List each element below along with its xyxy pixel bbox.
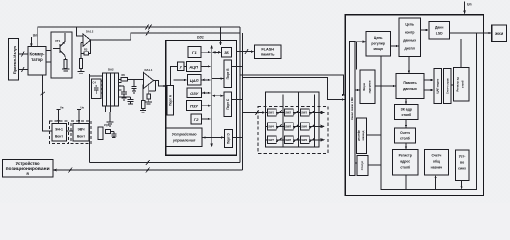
wire delay former to data memory [375, 85, 396, 87]
svg-text:ЭН-1: ЭН-1 [55, 128, 63, 132]
svg-text:Порт В: Порт В [226, 68, 230, 80]
main vertical wire left of driver IC [89, 74, 91, 163]
wire row counter to column address register [451, 84, 453, 86]
svg-text:ПЗУ: ПЗУ [190, 104, 198, 109]
wire U to ADC [184, 65, 187, 67]
wire port B to external bus [232, 66, 243, 68]
vertical bus V2 right of DD1 [242, 33, 244, 170]
svg-text:Канал связи с МК: Канал связи с МК [350, 97, 354, 120]
svg-text:Uп: Uп [467, 3, 472, 7]
block column counter (Счетч столб) [395, 128, 416, 143]
block data memory (Память данных) [396, 74, 424, 99]
bus slash on commutator down wire [41, 92, 46, 95]
svg-text:SW2: SW2 [285, 111, 291, 115]
block column address latch (ЗК адр столб) [395, 105, 418, 120]
svg-text:Г1: Г1 [192, 50, 197, 55]
svg-text:синх: синх [458, 167, 466, 171]
power arrow into fan 2 [77, 106, 84, 124]
IC left pins to C4 [90, 76, 103, 93]
wire DA1.1 output into Port A [154, 81, 167, 88]
wire bus to ZB [212, 51, 221, 53]
svg-text:Статус: Статус [360, 160, 364, 170]
block ADC (АЦП) [186, 61, 201, 71]
wire sync device to bottom bus [460, 180, 462, 189]
svg-text:столб: столб [400, 166, 410, 170]
wire op-amp DA1.2 output to bus Y2 [91, 33, 241, 40]
block column address register (Регистр ад столб) vertical [454, 68, 470, 101]
feedback resistor R3 [81, 40, 91, 55]
svg-text:LSD: LSD [436, 32, 443, 36]
svg-text:Форм: Форм [362, 83, 366, 91]
wire B bottom bus to positioning device [53, 168, 243, 173]
block U amplifier [178, 62, 184, 71]
svg-text:Вент: Вент [77, 135, 85, 139]
op-amp DA1.1 feedback resistor R7 to ground [140, 81, 155, 113]
keyboard row arrows at right edge [319, 111, 324, 113]
wire commutator to transistor box stub2 [46, 61, 51, 63]
block DAC (ЦАП) [188, 75, 201, 86]
svg-text:DA1.1: DA1.1 [145, 68, 153, 72]
wire DAC to bus [201, 79, 211, 81]
transistor VT1 [53, 33, 65, 56]
block column address reg (Регистр адрес столб) [393, 150, 419, 175]
bus pair to display module: wire b1 [240, 75, 344, 95]
svg-text:R3: R3 [84, 48, 88, 52]
switch SW8 [285, 136, 300, 143]
svg-text:Порт А: Порт А [168, 94, 172, 106]
wire commutator top riser to top bus Y1 [38, 27, 240, 47]
svg-text:мощн: мощн [373, 47, 382, 51]
svg-text:SW4: SW4 [268, 125, 274, 129]
svg-text:команд: команд [362, 130, 365, 140]
wire status to internal bus [368, 164, 381, 166]
arrow head b2 [342, 98, 345, 100]
block G1 oscillator [188, 46, 201, 57]
svg-text:SW5: SW5 [285, 125, 291, 129]
svg-text:Устройство: Устройство [172, 132, 198, 136]
svg-text:SW3: SW3 [301, 111, 307, 115]
switch SW4 [268, 123, 283, 130]
block commutator (Коммутатор) [28, 47, 46, 76]
svg-text:SW8: SW8 [285, 138, 291, 142]
svg-text:Порт С: Порт С [226, 98, 230, 110]
svg-text:Uв: Uв [81, 106, 85, 110]
arrow head b1 [342, 94, 345, 96]
block status (Статус) vertical [357, 156, 368, 176]
svg-text:управления: управления [172, 138, 196, 142]
block control unit (Устройство управления) [166, 128, 202, 146]
svg-text:столб: столб [461, 80, 465, 88]
wire bus to port C [212, 95, 224, 97]
svg-text:диспл: диспл [405, 47, 415, 51]
block receiver-emitter (Приемн-Излуч) [9, 39, 19, 81]
power arrow Up into controller [463, 2, 471, 15]
wire bus link1 receiver-commutator [19, 52, 29, 57]
keyboard column line 2 [298, 92, 300, 147]
switch SW3 [301, 109, 316, 116]
block G2 [191, 114, 202, 124]
port B [224, 60, 232, 88]
svg-text:DD1: DD1 [197, 36, 204, 40]
svg-text:Цепь: Цепь [374, 36, 383, 40]
fan unit 2 dashed outline [71, 121, 91, 144]
svg-text:Данн: Данн [435, 26, 443, 30]
svg-text:данных: данных [403, 39, 416, 43]
block power regulation (Цепь регулир мощн) [366, 32, 391, 57]
fan block 2 (ЭВЧ Вент) [73, 124, 89, 142]
wire port C to external bus [232, 99, 243, 101]
wire commutator bottom down then right to fans [43, 75, 52, 131]
svg-text:Приемн-Излуч: Приемн-Излуч [12, 45, 17, 74]
wire data memory to column latch [405, 99, 407, 105]
svg-text:Счетч: Счетч [431, 154, 441, 158]
block command decoder (дешифр команд) vertical [356, 118, 366, 154]
wire RAM to bus [201, 92, 211, 94]
block delay former (Форм задержки) vertical [360, 70, 375, 104]
svg-text:DA1.2: DA1.2 [86, 30, 94, 34]
block sync device (Уст-во синх) [456, 150, 469, 181]
power arrow Up into commutator [30, 34, 37, 48]
op-amp DA1.1 [144, 68, 154, 88]
bus slash on Y2 [146, 31, 149, 36]
svg-text:Г2: Г2 [194, 117, 199, 122]
svg-text:ОЗУ: ОЗУ [190, 91, 199, 96]
interface channel box (vertical) [349, 42, 355, 176]
wire ADC to bus [201, 65, 211, 67]
svg-text:татор: татор [31, 57, 43, 62]
positioning device block [3, 160, 53, 178]
ground under IC [107, 112, 114, 126]
switch SW6 [301, 123, 316, 130]
wire Y1 drop to op-amp input [77, 27, 83, 36]
svg-text:Уст-: Уст- [459, 155, 466, 159]
svg-text:адрес: адрес [400, 160, 410, 164]
fan block 1 (ЭН Вент) [52, 124, 67, 142]
switch SW1 [268, 109, 283, 116]
wire column latch to column counter [405, 119, 407, 128]
resistor R2 input leg [78, 43, 85, 74]
wire data memory to video DAC [424, 79, 434, 91]
wire ROM to bus [202, 105, 211, 107]
port C [224, 92, 232, 116]
wire channel to delay former [355, 89, 360, 91]
svg-text:Порт D: Порт D [227, 132, 231, 144]
block display data control (Цепь контр данных диспл) [399, 18, 421, 56]
wire A bottom bus to driver section [90, 160, 241, 165]
svg-text:VT1: VT1 [55, 39, 61, 43]
capacitor block C4 [92, 79, 102, 99]
keyboard matrix dashed box [258, 106, 328, 153]
internal data bus of DD1 [210, 45, 213, 147]
svg-text:ЗБ: ЗБ [224, 51, 229, 55]
svg-text:R6: R6 [122, 73, 126, 77]
svg-text:ЦАП видео: ЦАП видео [436, 78, 440, 93]
transistor stage enclosure box [51, 32, 72, 78]
svg-text:SW1: SW1 [268, 111, 274, 115]
wire G1 to bus [201, 51, 211, 53]
svg-text:ЭВЧ: ЭВЧ [77, 128, 85, 132]
svg-text:во: во [460, 161, 464, 165]
wire column counter to address reg [405, 143, 407, 150]
block general purpose counter (Счетч общ назнач) [425, 150, 449, 175]
wire R6 to op-amp DA1.1 with cap tap [127, 79, 143, 93]
wire commutator to transistor box stub1 [46, 50, 51, 52]
svg-text:DA2: DA2 [108, 68, 114, 72]
wire G2 to bus [201, 118, 211, 120]
svg-text:столб: столб [400, 137, 410, 141]
switch SW7 [268, 136, 283, 143]
switch SW2 [285, 109, 300, 116]
keyboard matrix outer box [266, 92, 320, 147]
wire port D to external bus [232, 137, 242, 139]
svg-text:SW9: SW9 [301, 138, 307, 142]
wire address reg to bottom bus [405, 175, 407, 189]
block video DAC (ЦАП видео) vertical [434, 69, 442, 104]
wire channel to power regulation [355, 41, 366, 70]
wire command decoder to internal bus [367, 134, 381, 136]
svg-text:столб: столб [401, 113, 411, 117]
switch SW9 [301, 136, 316, 143]
LCD display block (ЖКИ) [492, 25, 507, 42]
svg-text:АЦП: АЦП [188, 64, 198, 69]
wire bus to port B [212, 77, 224, 79]
wire fan2 to main vertical [88, 130, 91, 132]
wire bus link2 receiver-commutator [19, 67, 29, 72]
wire gp counter to bottom bus [434, 175, 436, 189]
driver IC DA2 [103, 68, 119, 107]
arrow from top bus Y1 into DD1 [219, 27, 222, 46]
op-amp DA1.2 [83, 30, 94, 47]
crystal ZQ1 below IC [98, 106, 117, 140]
svg-text:SW6: SW6 [301, 125, 307, 129]
keyboard column line 3 [314, 95, 316, 148]
svg-text:Вент: Вент [55, 135, 63, 139]
svg-text:Uв: Uв [60, 106, 64, 110]
svg-text:ЗК адр: ЗК адр [401, 108, 412, 112]
svg-text:ЦАП: ЦАП [190, 78, 199, 83]
block RAM (ОЗУ) [187, 88, 201, 98]
svg-text:C4: C4 [93, 81, 97, 85]
switch SW5 [285, 123, 300, 130]
svg-text:Комму-: Комму- [30, 52, 46, 57]
wire power regulation to data control [391, 45, 400, 47]
wire channel to status [355, 162, 357, 164]
wire Port A to DAC [174, 79, 188, 81]
wire data control down to data memory [408, 56, 410, 73]
block row counter (Счетч строк) vertical [444, 69, 452, 104]
resistor R6 [119, 73, 128, 81]
keyboard row line 2 [266, 125, 320, 127]
bus pair to display module: wire b2 [243, 77, 345, 99]
keyboard column line 1 [282, 95, 284, 148]
keyboard row line 3 [266, 139, 320, 141]
power arrow into fan 1 [57, 106, 64, 124]
svg-text:дешифр: дешифр [357, 130, 361, 141]
keyboard row line 1 [266, 112, 320, 114]
svg-text:Память: Память [403, 81, 417, 85]
display controller outer box [345, 15, 483, 196]
fan unit 1 dashed outline [50, 121, 69, 144]
svg-text:память: память [261, 53, 275, 57]
svg-text:общ: общ [433, 160, 440, 164]
IC right pins with caps to ground [119, 83, 128, 101]
bus slash marks on Y1 [146, 25, 152, 30]
wire U input from Port A top [170, 66, 177, 85]
svg-text:задержки: задержки [367, 80, 371, 93]
IC right pin2 cap to ground [119, 97, 134, 104]
port D [225, 130, 233, 148]
wire fan1-fan2 [67, 130, 73, 132]
port A [167, 86, 174, 116]
svg-text:данных: данных [403, 87, 417, 91]
block ROM (ПЗУ) [187, 101, 202, 111]
svg-text:SW7: SW7 [268, 138, 274, 142]
wire DD1 to keyboard [243, 110, 266, 115]
wire column address register up to LCD data [460, 39, 462, 68]
svg-text:FLASH: FLASH [261, 48, 274, 52]
microcontroller DD1 box [166, 36, 237, 156]
FLASH memory block [255, 45, 282, 59]
wire data control to LCD data [421, 29, 429, 31]
svg-text:Счетч строк: Счетч строк [446, 77, 450, 94]
block LCD data (Данн LCD) [429, 22, 450, 39]
internal bottom bus of controller [381, 33, 477, 189]
svg-text:Uп: Uп [33, 34, 38, 38]
block ZB [222, 48, 232, 58]
svg-text:Регистр ад: Регистр ад [455, 77, 459, 92]
svg-text:назнач: назнач [431, 166, 443, 170]
svg-text:контр: контр [405, 31, 415, 35]
svg-text:регулир: регулир [371, 42, 385, 46]
svg-text:Регистр: Регистр [399, 154, 412, 158]
resistor R1 [62, 56, 70, 72]
svg-text:Цепь: Цепь [405, 23, 414, 27]
wire DD1 to FLASH [237, 49, 255, 54]
svg-text:Счетч: Счетч [400, 131, 410, 135]
vertical bus V1 right of DD1 [239, 27, 241, 163]
wire LCD data to LCD display [450, 32, 492, 34]
svg-text:ЖКИ: ЖКИ [494, 32, 503, 36]
wire control unit to Port D [202, 136, 224, 138]
